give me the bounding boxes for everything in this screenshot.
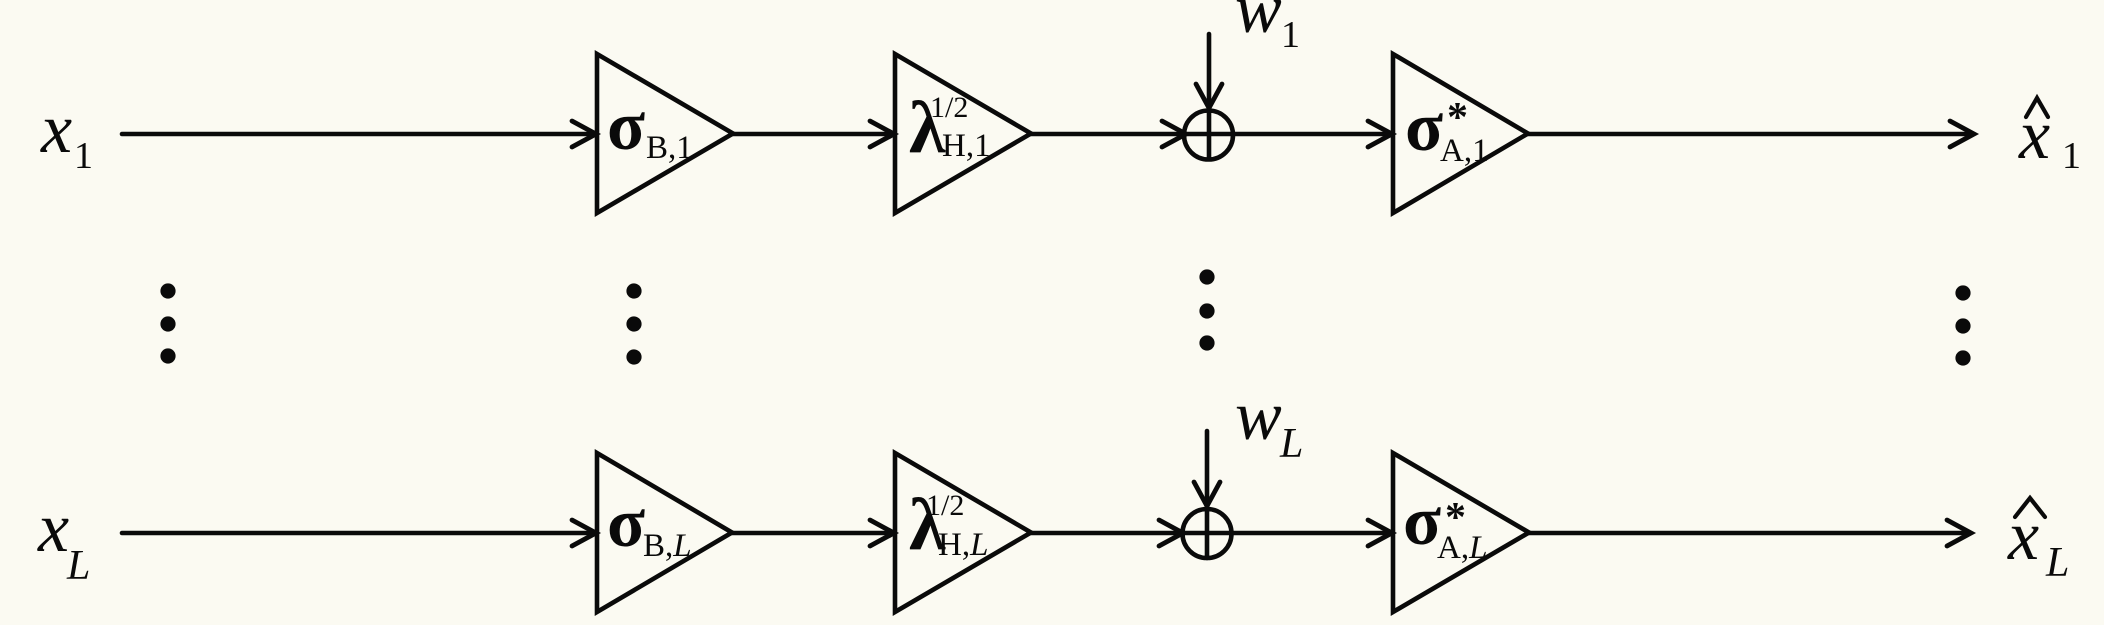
arrowhead into sigma_B,L (572, 520, 596, 546)
amplifier triangle sigma_A,L (1393, 453, 1529, 612)
svg-text:L: L (66, 543, 90, 589)
input label x1 (40, 91, 93, 177)
output label xL-hat (2007, 498, 2069, 586)
svg-text:B,L: B,L (643, 528, 692, 564)
svg-text:1: 1 (74, 135, 93, 177)
wire: input line row 2 (122, 531, 595, 536)
gain label lambda_H,L with exponent 1/2 (909, 484, 988, 566)
input label xL (37, 490, 90, 589)
arrowhead of w1 input (1196, 84, 1222, 108)
svg-text:L: L (1279, 421, 1303, 467)
arrowhead output row 2 (1947, 520, 1971, 546)
wire: input line row 1 (122, 132, 595, 137)
svg-text:w: w (1235, 0, 1282, 48)
arrowhead output row 1 (1950, 121, 1974, 147)
amplifier triangle lambda_H,1 (895, 54, 1031, 213)
output label x1-hat (2018, 97, 2081, 177)
svg-text:σ: σ (1403, 483, 1441, 560)
arrowhead into sigma_B,1 (572, 121, 596, 147)
svg-text:1/2: 1/2 (930, 91, 968, 124)
arrowhead of wL input (1194, 482, 1220, 506)
gain label sigma_A,L with asterisk (1403, 483, 1487, 566)
adder circle row 1 (1184, 111, 1233, 160)
svg-text:1/2: 1/2 (926, 489, 964, 522)
svg-text:x: x (2018, 97, 2050, 174)
dots column after sigma_B (626, 283, 641, 298)
svg-text:H,L: H,L (938, 527, 988, 563)
hat of xL output label (2015, 498, 2045, 517)
svg-text:σ: σ (1405, 89, 1443, 166)
adder circle row 2 (1183, 509, 1232, 558)
dots column right (1955, 285, 1970, 300)
gain label sigma_B,1 (607, 88, 693, 166)
gain label sigma_A,1 with asterisk (1405, 89, 1489, 169)
wire: lambda_H,L to adder row 2 (1029, 531, 1391, 536)
gain label lambda_H,1 with exponent 1/2 (909, 87, 991, 169)
svg-text:w: w (1235, 378, 1282, 455)
arrowhead into sigma_A,1 (1368, 121, 1392, 147)
svg-text:x: x (40, 91, 72, 168)
wire: w1 vertical into adder (1207, 34, 1212, 159)
arrowhead into adder row 1 (1162, 121, 1186, 147)
svg-text:x: x (37, 490, 69, 567)
svg-text:A,1: A,1 (1440, 133, 1489, 169)
gain label sigma_B,L (607, 485, 692, 564)
wire: output row 1 (1527, 132, 1972, 137)
amplifier triangle sigma_B,1 (597, 54, 733, 213)
svg-text:σ: σ (607, 88, 645, 165)
wire: wL vertical into adder (1205, 431, 1210, 558)
hat of x1 output label (2026, 98, 2048, 117)
dots column at adder (1199, 269, 1214, 284)
arrowhead into lambda_H,L (870, 520, 894, 546)
amplifier triangle sigma_B,L (597, 453, 732, 612)
wire: sigma_B,1 to lambda_H,1 (731, 132, 893, 137)
wire: lambda_H,1 to adder row 1 (1029, 132, 1391, 137)
svg-text:L: L (2045, 540, 2069, 586)
wire: output row 2 (1528, 531, 1969, 536)
svg-text:1: 1 (1281, 14, 1300, 56)
svg-text:H,1: H,1 (942, 128, 991, 164)
svg-text:A,L: A,L (1437, 530, 1487, 566)
amplifier triangle sigma_A,1 (1393, 54, 1528, 213)
svg-text:σ: σ (607, 485, 645, 562)
svg-text:x: x (2007, 498, 2039, 575)
noise label wL (1235, 378, 1303, 467)
noise label w1 (1235, 0, 1300, 56)
amplifier triangle lambda_H,L (895, 453, 1031, 612)
arrowhead into sigma_A,L (1368, 520, 1392, 546)
arrowhead into lambda_H,1 (870, 121, 894, 147)
arrowhead into adder row 2 (1159, 520, 1183, 546)
svg-text:B,1: B,1 (646, 130, 693, 166)
svg-text:1: 1 (2062, 135, 2081, 177)
dots column left (160, 283, 175, 298)
wire: sigma_B,L to lambda_H,L (730, 531, 893, 536)
